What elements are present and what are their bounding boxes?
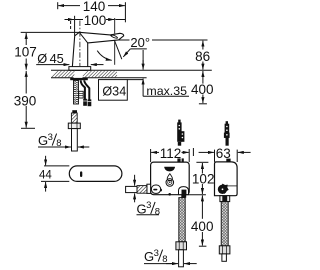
svg-text:3: 3: [154, 248, 159, 259]
shared tick under boxes: [184, 194, 206, 196]
aerator: [109, 34, 118, 40]
svg-text:400: 400: [191, 219, 214, 234]
dimension 86: [195, 41, 210, 70]
slant line: [114, 40, 122, 59]
dimension 400 right: [191, 195, 214, 246]
20 degree annotation: [97, 18, 150, 65]
base plate: [69, 67, 91, 71]
mouth icon: [164, 167, 175, 172]
svg-text:107: 107: [14, 44, 37, 59]
svg-text:Ø 45: Ø 45: [37, 51, 63, 66]
horizontal reference line at aerator level: [118, 39, 208, 41]
dimension 102: [192, 162, 215, 194]
dimension 390: [14, 71, 37, 128]
knob: [218, 184, 229, 194]
label G 3/8 bottom: [144, 248, 197, 265]
control box (box1): [151, 158, 190, 195]
washer under deck: [70, 78, 88, 80]
dimension 400 left: [191, 71, 214, 104]
svg-text:86: 86: [195, 49, 210, 64]
dimension 44: [39, 156, 69, 192]
supply pipe: [72, 129, 78, 151]
svg-text:140: 140: [83, 0, 106, 14]
svg-text:44: 44: [39, 169, 52, 181]
svg-text:3: 3: [48, 132, 53, 143]
svg-text:3: 3: [146, 200, 151, 211]
dimension 112: [151, 146, 194, 162]
sensor oval left: [151, 185, 160, 193]
label G 3/8 left: [38, 132, 89, 149]
left fitting of box1: [126, 184, 151, 193]
deck: [51, 70, 212, 77]
drop icon: [167, 174, 172, 181]
dimension max.35: [143, 50, 189, 98]
label G 3/8 for left fitting: [135, 175, 160, 218]
svg-text:G: G: [38, 133, 48, 148]
outlet boss: [179, 187, 189, 195]
small dot: [159, 189, 162, 192]
top pipe left: [177, 120, 184, 146]
stadium top view: [69, 166, 122, 182]
svg-text:63: 63: [216, 146, 231, 161]
svg-text:20°: 20°: [130, 35, 150, 50]
hose plugs: [83, 99, 91, 106]
dimension 107: [14, 32, 79, 69]
hoses below deck: [81, 80, 90, 100]
svg-text:G: G: [144, 249, 154, 264]
threaded shank: [74, 80, 84, 104]
top pipe right: [224, 121, 230, 146]
svg-text:102: 102: [192, 171, 215, 186]
dimension 100: [65, 13, 126, 36]
deck hatching: [52, 71, 118, 78]
lower fitting rod: [68, 110, 80, 151]
dimension 63: [199, 146, 251, 162]
svg-text:G: G: [137, 202, 147, 217]
cover box (box2): [215, 159, 238, 196]
svg-text:8: 8: [155, 206, 160, 217]
svg-text:400: 400: [191, 82, 214, 97]
svg-text:max.35: max.35: [146, 84, 187, 98]
label Ø34 boxed: [99, 80, 144, 101]
crease line: [79, 32, 87, 43]
centerline: [79, 21, 81, 67]
dimension 140: [58, 0, 126, 22]
svg-text:390: 390: [14, 94, 37, 109]
right hose assembly: [219, 196, 230, 262]
arc: [97, 51, 112, 61]
faucet body: [69, 21, 124, 71]
svg-text:Ø34: Ø34: [102, 84, 126, 98]
label Ø45: [36, 51, 103, 66]
left hose assembly: [176, 195, 187, 267]
top pins: [177, 158, 180, 162]
svg-text:100: 100: [84, 13, 107, 28]
